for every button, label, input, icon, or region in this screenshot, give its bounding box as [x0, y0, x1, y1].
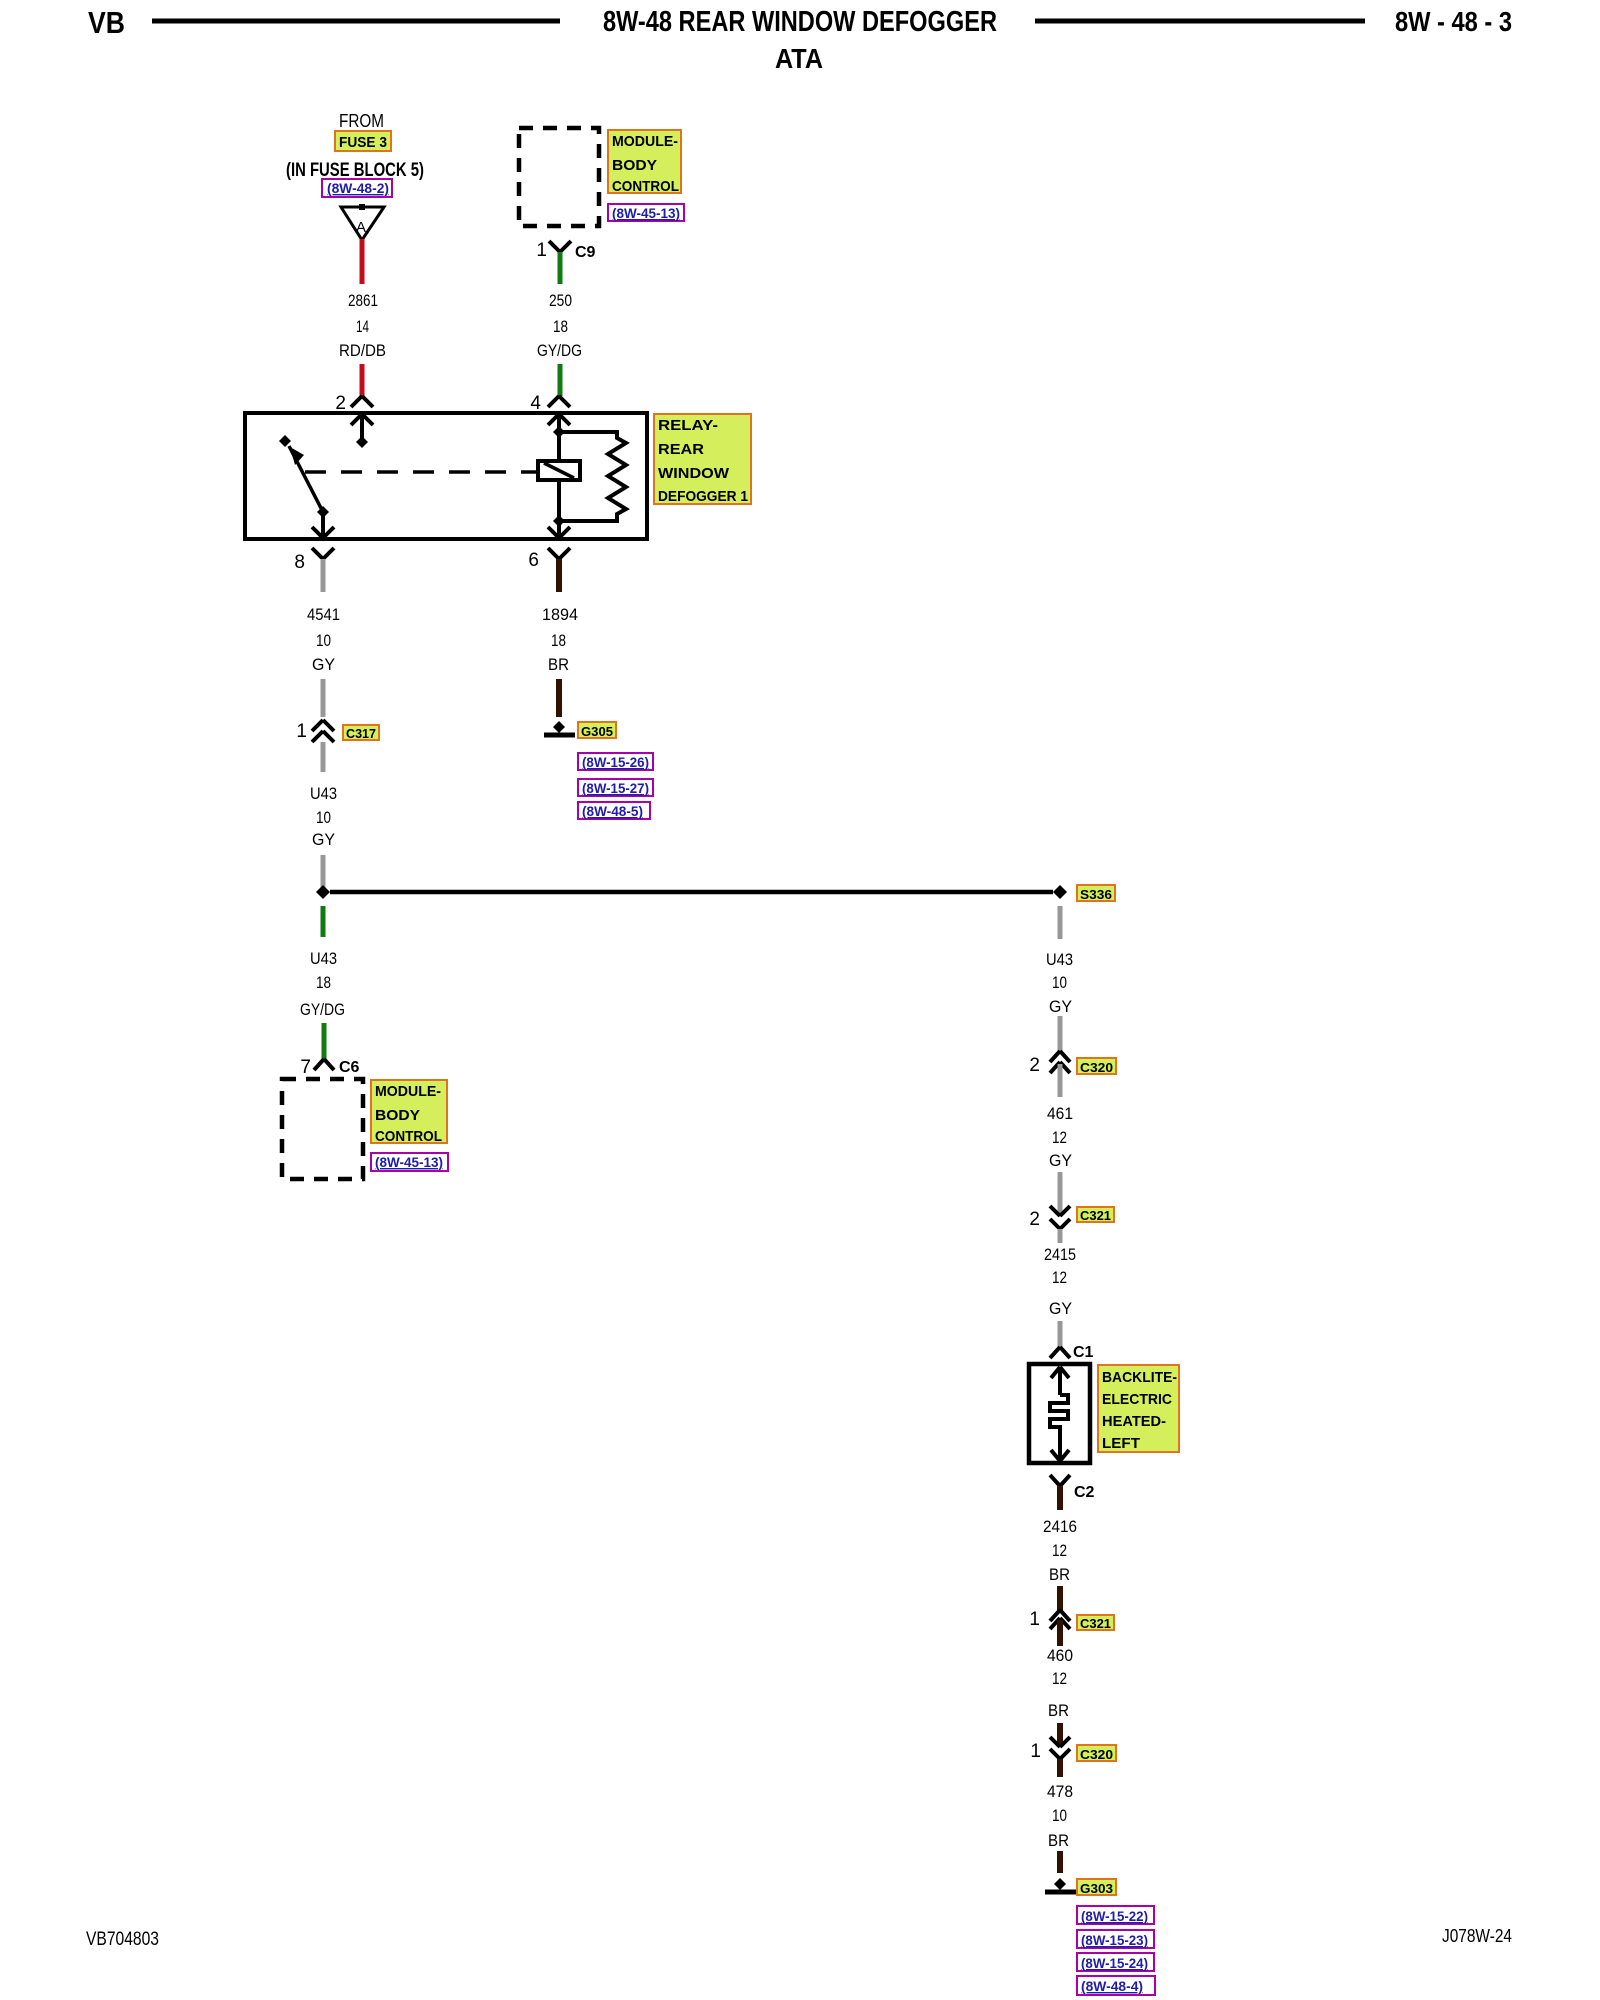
- svg-text:GY: GY: [312, 655, 335, 674]
- svg-text:REAR: REAR: [658, 441, 704, 458]
- svg-text:(8W-15-26): (8W-15-26): [582, 754, 649, 770]
- link 8W-15-24: [1077, 1953, 1154, 1971]
- svg-text:1: 1: [536, 240, 547, 261]
- svg-text:8W-48 REAR WINDOW DEFOGGER: 8W-48 REAR WINDOW DEFOGGER: [603, 6, 997, 38]
- svg-text:(8W-15-22): (8W-15-22): [1081, 1908, 1148, 1924]
- relay coil dashed actuator line: [305, 470, 536, 474]
- svg-text:1: 1: [1030, 1741, 1041, 1762]
- svg-text:ATA: ATA: [775, 43, 823, 74]
- svg-text:DEFOGGER 1: DEFOGGER 1: [658, 488, 748, 505]
- svg-text:GY/DG: GY/DG: [300, 1000, 345, 1019]
- ground G303: [1054, 1878, 1066, 1890]
- header left rule: [152, 19, 560, 24]
- header right rule: [1035, 19, 1365, 24]
- label BACKLITE-ELECTRIC HEATED-LEFT: [1098, 1365, 1179, 1452]
- wire U43 GY/DG into C6: [322, 1023, 327, 1059]
- svg-text:(8W-45-13): (8W-45-13): [375, 1154, 443, 1170]
- svg-text:12: 12: [1052, 1128, 1067, 1147]
- svg-text:U43: U43: [310, 784, 337, 803]
- svg-text:(8W-15-23): (8W-15-23): [1081, 1932, 1148, 1948]
- svg-text:(8W-15-27): (8W-15-27): [582, 780, 649, 796]
- wire 460 BR into C320: [1057, 1723, 1063, 1744]
- wire 1894 BR lower segment: [556, 679, 562, 717]
- svg-text:6: 6: [528, 550, 539, 571]
- svg-text:(8W-45-13): (8W-45-13): [612, 205, 680, 221]
- svg-text:18: 18: [316, 973, 331, 992]
- svg-text:461: 461: [1047, 1104, 1073, 1123]
- svg-text:FUSE 3: FUSE 3: [339, 134, 387, 151]
- relay pin 4 internal arrow and contact line: [548, 414, 570, 521]
- wire 478 BR into ground: [1057, 1851, 1063, 1873]
- svg-text:WINDOW: WINDOW: [658, 465, 730, 482]
- svg-text:8: 8: [294, 552, 305, 573]
- relay switch contact: [279, 435, 291, 447]
- svg-text:U43: U43: [310, 949, 337, 968]
- svg-text:C320: C320: [1080, 1060, 1113, 1075]
- wire 2861 RD/DB lower segment: [360, 364, 365, 396]
- svg-text:ELECTRIC: ELECTRIC: [1102, 1391, 1172, 1408]
- svg-text:GY: GY: [1049, 1299, 1072, 1318]
- svg-text:7: 7: [300, 1057, 311, 1078]
- svg-text:10: 10: [1052, 973, 1067, 992]
- svg-text:BACKLITE-: BACKLITE-: [1102, 1369, 1177, 1386]
- svg-text:U43: U43: [1046, 950, 1073, 969]
- fuse feed triangle A: [341, 207, 384, 240]
- svg-text:GY/DG: GY/DG: [537, 341, 582, 360]
- label MODULE-BODY CONTROL (top): [608, 130, 681, 193]
- wire 461 GY into C321: [1058, 1172, 1063, 1214]
- svg-text:460: 460: [1047, 1646, 1073, 1665]
- svg-text:BODY: BODY: [375, 1107, 420, 1124]
- link 8W-48-5: [578, 802, 650, 819]
- svg-text:14: 14: [356, 317, 369, 336]
- relay K1 rear window defogger box: [245, 413, 647, 539]
- svg-text:10: 10: [316, 808, 331, 827]
- svg-text:GY: GY: [1049, 1151, 1072, 1170]
- ground G305: [553, 721, 565, 733]
- label RELAY-REAR WINDOW DEFOGGER 1: [654, 414, 751, 504]
- svg-text:RELAY-: RELAY-: [658, 417, 718, 434]
- module body control (top) dashed box: [519, 128, 599, 226]
- heater element arrow up: [1051, 1367, 1069, 1395]
- link 8W-45-13 (top): [608, 204, 684, 221]
- pin 2 connector chevron: [351, 396, 373, 407]
- svg-text:(8W-48-5): (8W-48-5): [582, 803, 643, 819]
- svg-text:VB704803: VB704803: [86, 1929, 159, 1950]
- link 8W-15-23: [1077, 1930, 1154, 1948]
- svg-text:RD/DB: RD/DB: [339, 341, 386, 360]
- wire 2416 BR into C321: [1057, 1586, 1063, 1610]
- wire U43 GY into C320: [1058, 1016, 1063, 1051]
- wire 2415 GY into C1: [1058, 1321, 1063, 1347]
- svg-text:G303: G303: [1080, 1881, 1113, 1896]
- svg-text:BR: BR: [1048, 1831, 1069, 1850]
- svg-text:BR: BR: [548, 655, 569, 674]
- svg-text:478: 478: [1047, 1782, 1073, 1801]
- svg-text:HEATED-: HEATED-: [1102, 1413, 1166, 1430]
- link 8W-48-2: [322, 179, 392, 197]
- connector C1: [1050, 1347, 1070, 1358]
- svg-text:C2: C2: [1074, 1484, 1095, 1501]
- wire 2416 BR upper segment: [1057, 1486, 1063, 1510]
- svg-text:C320: C320: [1080, 1747, 1113, 1762]
- svg-text:MODULE-: MODULE-: [375, 1083, 441, 1100]
- heater element arrow down: [1051, 1450, 1069, 1461]
- svg-text:VB: VB: [88, 5, 125, 40]
- splice S336 junction: [316, 885, 330, 899]
- svg-text:(8W-48-4): (8W-48-4): [1081, 1978, 1143, 1994]
- wire U43 GY below C317: [321, 742, 326, 772]
- svg-text:2416: 2416: [1043, 1517, 1077, 1536]
- svg-text:1: 1: [1029, 1609, 1040, 1630]
- pin 4 connector chevron: [548, 396, 570, 407]
- svg-text:10: 10: [316, 631, 331, 650]
- svg-text:CONTROL: CONTROL: [375, 1128, 442, 1145]
- svg-text:2: 2: [335, 393, 346, 414]
- svg-text:2861: 2861: [348, 291, 378, 310]
- svg-text:LEFT: LEFT: [1102, 1435, 1140, 1452]
- svg-text:MODULE-: MODULE-: [612, 133, 678, 150]
- relay pin 8 internal arrow: [312, 512, 334, 538]
- svg-text:S336: S336: [1080, 887, 1112, 902]
- svg-text:GY: GY: [312, 830, 335, 849]
- svg-text:(IN FUSE BLOCK 5): (IN FUSE BLOCK 5): [286, 160, 424, 181]
- svg-text:BODY: BODY: [612, 157, 657, 174]
- svg-text:18: 18: [551, 631, 566, 650]
- svg-text:4541: 4541: [307, 605, 340, 624]
- wire 250 GY/DG lower segment: [558, 364, 563, 396]
- svg-text:C321: C321: [1080, 1616, 1111, 1631]
- relay pin 2 internal arrow: [351, 414, 373, 438]
- svg-text:(8W-48-2): (8W-48-2): [327, 180, 389, 196]
- wire 4541 GY upper segment: [321, 559, 326, 592]
- label MODULE-BODY CONTROL (bottom): [371, 1080, 447, 1143]
- svg-text:BR: BR: [1049, 1565, 1070, 1584]
- relay coil: [538, 461, 580, 480]
- svg-text:2415: 2415: [1044, 1245, 1076, 1264]
- svg-text:12: 12: [1052, 1669, 1067, 1688]
- svg-text:A: A: [356, 219, 366, 236]
- connector C2: [1050, 1475, 1070, 1486]
- svg-text:2: 2: [1029, 1209, 1040, 1230]
- svg-text:C317: C317: [346, 726, 376, 741]
- svg-text:8W - 48 - 3: 8W - 48 - 3: [1395, 6, 1512, 37]
- svg-text:CONTROL: CONTROL: [612, 178, 679, 195]
- svg-text:C1: C1: [1073, 1344, 1094, 1361]
- link 8W-15-27: [578, 779, 653, 796]
- wire 250 GY/DG upper segment: [558, 252, 563, 284]
- wire U43 GY right branch below splice: [1058, 906, 1063, 939]
- relay internal resistor: [559, 432, 626, 521]
- svg-text:C6: C6: [339, 1059, 360, 1076]
- wire U43 GY/DG below splice: [321, 906, 326, 937]
- wire 2861 RD/DB upper segment: [360, 239, 365, 284]
- svg-text:(8W-15-24): (8W-15-24): [1081, 1955, 1148, 1971]
- svg-text:GY: GY: [1049, 997, 1072, 1016]
- link 8W-15-22: [1077, 1906, 1154, 1924]
- svg-text:C321: C321: [1080, 1208, 1111, 1223]
- svg-text:G305: G305: [581, 724, 613, 739]
- svg-text:1: 1: [296, 721, 307, 742]
- wire 4541 GY lower segment: [321, 679, 326, 717]
- svg-text:12: 12: [1052, 1268, 1067, 1287]
- backlite electric heated left box: [1029, 1364, 1090, 1463]
- heater element: [1050, 1395, 1068, 1458]
- link 8W-15-26: [578, 753, 653, 770]
- link 8W-48-4: [1077, 1976, 1155, 1995]
- svg-text:FROM: FROM: [339, 111, 384, 131]
- svg-text:4: 4: [530, 393, 541, 414]
- link 8W-45-13 (bottom): [371, 1153, 448, 1171]
- svg-text:18: 18: [553, 317, 568, 336]
- module body control (bottom) dashed box: [282, 1079, 363, 1179]
- svg-text:10: 10: [1052, 1806, 1067, 1825]
- svg-text:C9: C9: [575, 244, 596, 261]
- relay pin 6 internal arrow: [548, 521, 570, 538]
- svg-text:1894: 1894: [542, 605, 578, 624]
- svg-text:250: 250: [549, 291, 572, 310]
- wire U43 GY into splice: [321, 855, 326, 890]
- svg-text:J078W-24: J078W-24: [1442, 1926, 1512, 1946]
- svg-text:BR: BR: [1048, 1701, 1069, 1720]
- wire 1894 BR upper segment: [556, 559, 562, 592]
- svg-text:12: 12: [1052, 1541, 1067, 1560]
- svg-text:2: 2: [1029, 1055, 1040, 1076]
